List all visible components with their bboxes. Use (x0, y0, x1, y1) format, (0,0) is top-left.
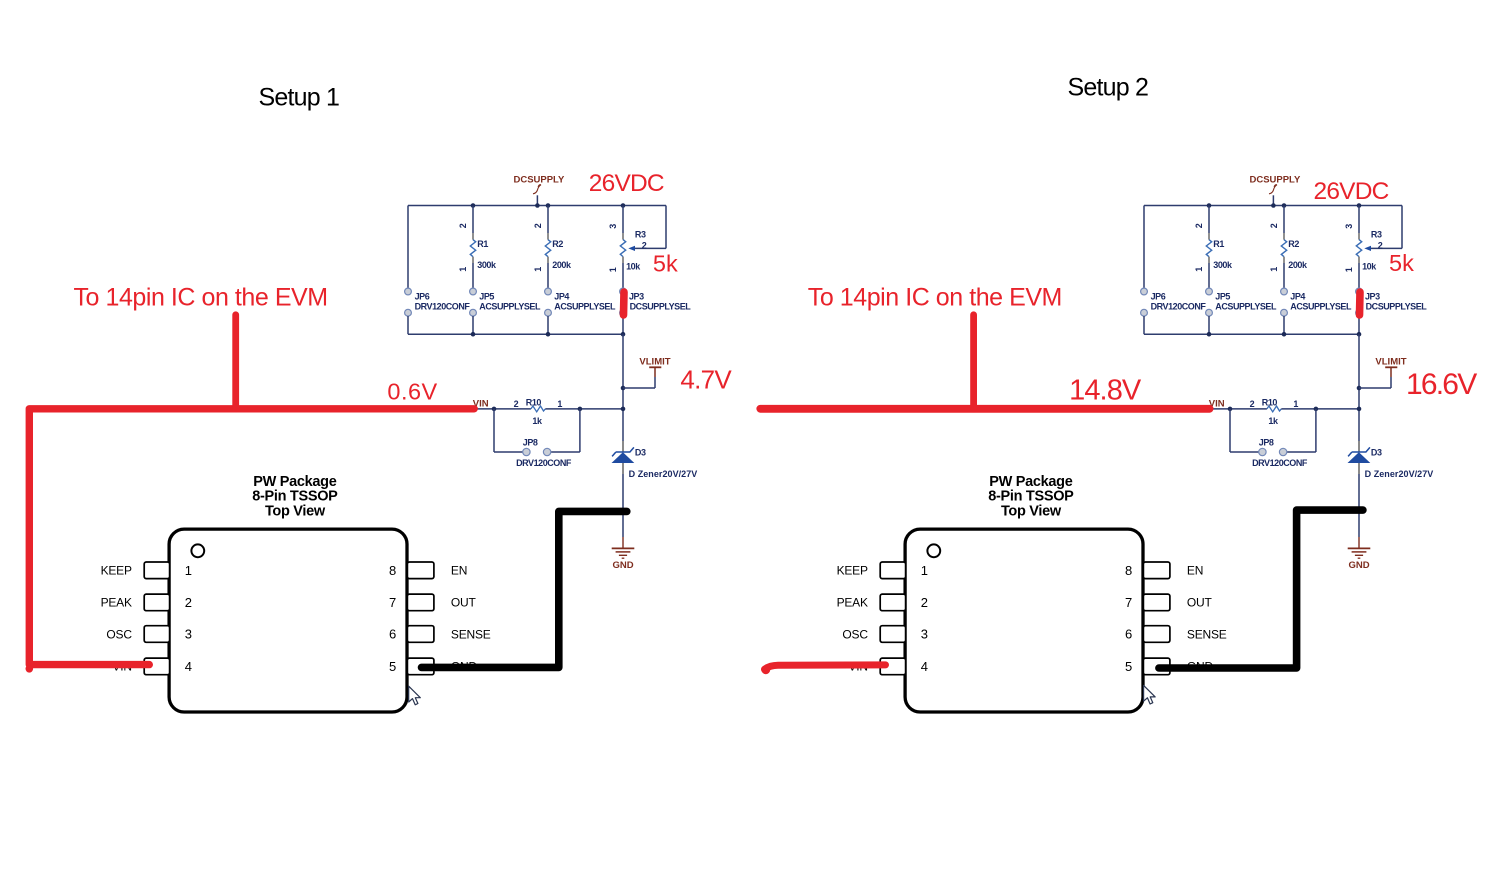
wire: JP3 to bottom rail (1358, 316, 1360, 334)
svg-text:300k: 300k (1213, 260, 1233, 270)
svg-text:R1: R1 (1213, 239, 1224, 249)
svg-text:SENSE: SENSE (1187, 627, 1227, 641)
jumper JP6 pads (setup 1) (405, 288, 412, 316)
wire: R3 wiper feed from rail (setup 1) (635, 206, 667, 249)
svg-text:2: 2 (533, 223, 543, 228)
svg-text:D Zener20V/27V: D Zener20V/27V (629, 469, 698, 479)
op-amp U1 8-pin TSSOP body (setup 1) (169, 529, 407, 712)
svg-text:R1: R1 (477, 239, 488, 249)
pin number 2 of R3 (1378, 240, 1383, 250)
svg-text:3: 3 (921, 627, 928, 642)
pin name KEEP (setup 2) (837, 564, 868, 578)
label JP5 (479, 291, 494, 301)
wire: DC supply top rail (setup 2) (1144, 205, 1402, 207)
title Setup 2 (1068, 73, 1149, 101)
svg-text:200k: 200k (1288, 260, 1308, 270)
svg-text:0.6V: 0.6V (387, 378, 437, 404)
wire: JP8 left leg (setup 1) (494, 409, 523, 452)
svg-text:To 14pin IC on the EVM: To 14pin IC on the EVM (808, 284, 1062, 312)
annotation: 14.8V (setup 2) (1069, 375, 1142, 407)
wire: JP5 to bottom rail (472, 316, 474, 334)
svg-text:26VDC: 26VDC (1314, 178, 1389, 205)
svg-text:R3: R3 (635, 230, 646, 240)
wire: top rail to R2 (1283, 206, 1285, 240)
pin 4 box (setup 2) (880, 658, 905, 675)
net label GND (setup 2) (1348, 560, 1369, 571)
svg-text:8-Pin TSSOP: 8-Pin TSSOP (988, 489, 1074, 505)
svg-text:ACSUPPLYSEL: ACSUPPLYSEL (1215, 302, 1277, 312)
label JP5 (1215, 291, 1230, 301)
wire: JP5 to bottom rail (1208, 316, 1210, 334)
label JP3 (1365, 291, 1380, 301)
svg-text:R10: R10 (1262, 397, 1278, 407)
pin name VIN (setup 1) (112, 660, 131, 674)
svg-text:DRV120CONF: DRV120CONF (1252, 458, 1308, 468)
wire: R3 wiper feed from rail (setup 2) (1371, 206, 1403, 249)
pin name VIN (setup 2) (848, 660, 867, 674)
svg-text:JP5: JP5 (1215, 291, 1230, 301)
svg-text:1k: 1k (532, 416, 543, 426)
annotation: 26VDC (setup 2) (1314, 178, 1389, 205)
svg-text:ACSUPPLYSEL: ACSUPPLYSEL (554, 302, 616, 312)
annotation: To 14pin IC on the EVM (setup 1) (74, 284, 328, 312)
svg-text:R2: R2 (552, 239, 563, 249)
value D Zener20V/27V (1365, 469, 1434, 479)
svg-text:3: 3 (185, 627, 192, 642)
svg-text:DRV120CONF: DRV120CONF (1151, 302, 1207, 312)
jumper JP6 pads (setup 2) (1141, 288, 1148, 316)
value 300k (477, 260, 497, 270)
pin number 1 of R1 (458, 267, 468, 272)
wire: top rail to R1 (472, 206, 474, 240)
svg-text:1: 1 (557, 399, 562, 409)
pin 3 box (setup 2) (880, 626, 905, 643)
wire: top rail to R3 (setup 1) (622, 206, 624, 240)
net label VIN (setup 1) (473, 398, 489, 409)
wire: JP8 right leg (setup 2) (1287, 409, 1316, 452)
wire: R10 to main net (setup 2) (1281, 408, 1359, 410)
jumper JP3 pads (setup 2) (1356, 288, 1363, 316)
label D3 (1371, 448, 1382, 458)
wire: JP4 to bottom rail (547, 316, 549, 334)
svg-text:26VDC: 26VDC (589, 170, 664, 197)
svg-text:1: 1 (458, 267, 468, 272)
wire: DC supply top rail (setup 1) (408, 205, 666, 207)
svg-text:VLIMIT: VLIMIT (639, 356, 670, 367)
svg-text:6: 6 (389, 627, 396, 642)
wire: VIN to R10 (setup 1) (475, 408, 531, 410)
pin number 3 (185, 627, 192, 642)
net label DRV120CONF (JP8) (516, 458, 572, 468)
net label DCSUPPLYSEL (1366, 302, 1428, 312)
junction dots on bottom rail (setup 1) (471, 332, 626, 337)
svg-text:5: 5 (1125, 659, 1132, 674)
net label DRV120CONF (1151, 302, 1207, 312)
jumper JP5 pads (470, 288, 477, 316)
wire: JP8 left leg (setup 2) (1230, 409, 1259, 452)
wire: bottom rail (setup 1) (408, 333, 623, 335)
wire: bottom rail (setup 2) (1144, 333, 1359, 335)
svg-text:8: 8 (1125, 563, 1132, 578)
pin number 5 (389, 659, 396, 674)
net label VIN (setup 2) (1209, 398, 1225, 409)
value 300k (1213, 260, 1233, 270)
pin name SENSE (setup 2) (1187, 627, 1227, 641)
wire: top rail to R2 (547, 206, 549, 240)
svg-text:1: 1 (608, 267, 618, 272)
resistor R2 200k (1281, 240, 1286, 289)
svg-text:R3: R3 (1371, 230, 1382, 240)
svg-text:JP3: JP3 (1365, 291, 1380, 301)
zener diode D3 (setup 2) (1348, 441, 1371, 474)
annotation: 0.6V (setup 1) (387, 378, 437, 404)
svg-text:Top View: Top View (1001, 503, 1062, 519)
red wire: pin 4 segment (setup 2) (761, 665, 885, 674)
wire: VIN to R10 (setup 2) (1211, 408, 1267, 410)
pin number 2 of R2 (1269, 223, 1279, 228)
svg-text:2: 2 (1250, 399, 1255, 409)
svg-text:ACSUPPLYSEL: ACSUPPLYSEL (1290, 302, 1352, 312)
net label GND (setup 1) (612, 560, 633, 571)
net label DRV120CONF (JP8) (1252, 458, 1308, 468)
pin number 1 of R1 (1194, 267, 1204, 272)
svg-text:4: 4 (185, 659, 192, 674)
wire: top rail to R3 (setup 2) (1358, 206, 1360, 240)
pin number 2 of R1 (1194, 223, 1204, 228)
pin name SENSE (setup 1) (451, 627, 491, 641)
wire: JP8 right leg (setup 1) (551, 409, 580, 452)
svg-text:Top View: Top View (265, 503, 326, 519)
pin number 1 (921, 563, 928, 578)
svg-text:R2: R2 (1288, 239, 1299, 249)
svg-text:DCSUPPLYSEL: DCSUPPLYSEL (1366, 302, 1428, 312)
svg-text:4: 4 (921, 659, 928, 674)
wire: left rail down to JP6 (setup 2) (1143, 206, 1145, 289)
pin 5 box (setup 2) (1143, 658, 1170, 675)
pin name OSC (setup 1) (106, 627, 132, 641)
svg-text:JP8: JP8 (1259, 438, 1274, 448)
net label DRV120CONF (415, 302, 471, 312)
svg-text:D3: D3 (1371, 448, 1382, 458)
svg-text:GND: GND (1348, 560, 1369, 571)
potentiometer R3 10k (setup 2) (1356, 240, 1361, 289)
pin 1 box (setup 1) (144, 562, 169, 579)
svg-text:KEEP: KEEP (101, 564, 132, 578)
svg-text:1: 1 (1194, 267, 1204, 272)
pin number 6 (389, 627, 396, 642)
pin 4 box (setup 1) (144, 658, 169, 675)
pin number 2 of R2 (533, 223, 543, 228)
svg-text:DRV120CONF: DRV120CONF (516, 458, 572, 468)
value 200k (1288, 260, 1308, 270)
title Setup 1 (259, 84, 340, 112)
pin 1 indicator circle (setup 2) (927, 544, 940, 557)
svg-text:1: 1 (185, 563, 192, 578)
label JP3 (629, 291, 644, 301)
pin number 5 (1125, 659, 1132, 674)
resistor R1 300k (470, 240, 475, 289)
jumper JP4 pads (545, 288, 552, 316)
pin number 2 of R3 (642, 240, 647, 250)
resistor R10 1k (setup 2) (1267, 406, 1281, 412)
svg-text:GND: GND (612, 560, 633, 571)
wire: JP3 to bottom rail (622, 316, 624, 334)
svg-text:R10: R10 (526, 397, 542, 407)
svg-text:D Zener20V/27V: D Zener20V/27V (1365, 469, 1434, 479)
svg-text:2: 2 (1269, 223, 1279, 228)
annotation: 4.7V (setup 1) (680, 365, 732, 395)
pin number 3 of R3 (1344, 224, 1354, 229)
svg-text:1: 1 (1293, 399, 1298, 409)
pin 7 box (setup 2) (1143, 594, 1170, 611)
pin name GND (setup 2) (1187, 660, 1214, 674)
wire: D3 to ground (setup 2) (1358, 474, 1360, 537)
wire: main vertical net (setup 2) (1358, 334, 1360, 441)
red jumper shunt on JP3 (setup 2) (1356, 292, 1364, 315)
value D Zener20V/27V (629, 469, 698, 479)
svg-text:KEEP: KEEP (837, 564, 868, 578)
pin number 1 of R10 (1293, 399, 1298, 409)
svg-text:OSC: OSC (842, 627, 868, 641)
annotation: 5k (setup 1) (653, 251, 678, 277)
label JP4 (554, 291, 569, 301)
jumper JP4 pads (1281, 288, 1288, 316)
svg-text:300k: 300k (477, 260, 497, 270)
label R3 (635, 230, 646, 240)
pin name OUT (setup 2) (1187, 596, 1213, 610)
net label DCSUPPLYSEL (630, 302, 692, 312)
svg-text:2: 2 (514, 399, 519, 409)
svg-text:5: 5 (389, 659, 396, 674)
svg-text:7: 7 (389, 595, 396, 610)
junction dots on top rail (setup 1) (471, 203, 626, 208)
R3 wiper arrow (setup 1) (628, 246, 635, 251)
label R3 (1371, 230, 1382, 240)
svg-text:ACSUPPLYSEL: ACSUPPLYSEL (479, 302, 541, 312)
label R10 (526, 397, 542, 407)
R3 wiper arrow (setup 2) (1364, 246, 1371, 251)
svg-text:JP4: JP4 (554, 291, 569, 301)
label JP6 (1151, 291, 1166, 301)
pin 3 box (setup 1) (144, 626, 169, 643)
svg-text:Setup 2: Setup 2 (1068, 73, 1149, 101)
pin 6 box (setup 1) (407, 626, 434, 643)
svg-text:D3: D3 (635, 448, 646, 458)
svg-text:DCSUPPLYSEL: DCSUPPLYSEL (630, 302, 692, 312)
svg-text:5k: 5k (1389, 250, 1414, 276)
pin number 1 (185, 563, 192, 578)
svg-text:VLIMIT: VLIMIT (1375, 356, 1406, 367)
resistor R2 200k (545, 240, 550, 289)
value 10k (1362, 261, 1377, 271)
pin number 2 of R10 (1250, 399, 1255, 409)
label R2 (1288, 239, 1299, 249)
ground symbol GND (setup 1) (612, 537, 635, 558)
svg-text:16.6V: 16.6V (1406, 368, 1477, 401)
pin number 1 of R10 (557, 399, 562, 409)
svg-text:DCSUPPLY: DCSUPPLY (513, 175, 565, 186)
svg-text:EN: EN (1187, 564, 1203, 578)
pin 6 box (setup 2) (1143, 626, 1170, 643)
junction dots on top rail (setup 2) (1207, 203, 1362, 208)
svg-text:8-Pin TSSOP: 8-Pin TSSOP (252, 489, 338, 505)
pin 8 box (setup 1) (407, 562, 434, 579)
svg-text:JP4: JP4 (1290, 291, 1305, 301)
jumper JP3 pads (setup 1) (620, 288, 627, 316)
pin number 8 (389, 563, 396, 578)
value 10k (626, 261, 641, 271)
label JP8 (523, 438, 538, 448)
pin name PEAK (setup 2) (837, 596, 868, 610)
wire: top rail to R1 (1208, 206, 1210, 240)
annotation: 5k (setup 2) (1389, 250, 1414, 276)
jumper JP5 pads (1206, 288, 1213, 316)
svg-text:10k: 10k (1362, 261, 1377, 271)
label R10 (1262, 397, 1278, 407)
svg-text:1k: 1k (1268, 416, 1279, 426)
label JP8 (1259, 438, 1274, 448)
value 1k (532, 416, 543, 426)
pin name PEAK (setup 1) (101, 596, 132, 610)
svg-text:6: 6 (1125, 627, 1132, 642)
svg-text:OUT: OUT (1187, 596, 1213, 610)
svg-text:JP6: JP6 (415, 291, 430, 301)
red jumper shunt on JP3 (setup 1) (620, 292, 628, 315)
svg-text:14.8V: 14.8V (1069, 375, 1142, 407)
zener diode D3 (setup 1) (612, 441, 635, 474)
pin name OUT (setup 1) (451, 596, 477, 610)
svg-text:JP5: JP5 (479, 291, 494, 301)
label JP4 (1290, 291, 1305, 301)
mouse cursor (setup 1) (409, 686, 421, 705)
pin number 4 (185, 659, 192, 674)
red wire: stub to annotation (setup 2) (970, 315, 977, 409)
annotation: To 14pin IC on the EVM (setup 2) (808, 284, 1062, 312)
IC package title (setup 1) (252, 474, 338, 519)
svg-text:3: 3 (608, 224, 618, 229)
svg-text:2: 2 (458, 223, 468, 228)
pin number 2 (185, 595, 192, 610)
svg-text:1: 1 (533, 267, 543, 272)
svg-text:2: 2 (1378, 240, 1383, 250)
svg-text:200k: 200k (552, 260, 572, 270)
mouse cursor (setup 2) (1144, 685, 1156, 704)
net label ACSUPPLYSEL (1215, 302, 1277, 312)
pin number 3 (921, 627, 928, 642)
wire: JP4 to bottom rail (1283, 316, 1285, 334)
resistor R10 1k (setup 1) (531, 406, 545, 412)
pin 2 box (setup 1) (144, 594, 169, 611)
svg-text:10k: 10k (626, 261, 641, 271)
svg-text:PW Package: PW Package (253, 474, 336, 490)
svg-text:PW Package: PW Package (989, 474, 1072, 490)
black wire: pin 5 to GND (setup 1) (422, 511, 627, 667)
pin number 8 (1125, 563, 1132, 578)
red wire: VIN feed (setup 2) (760, 405, 1209, 413)
red wire: stub to annotation (setup 1) (232, 315, 239, 409)
wire: D3 to ground (setup 1) (622, 474, 624, 537)
node VLIMIT power port (setup 2) (1357, 356, 1407, 390)
svg-text:1: 1 (921, 563, 928, 578)
pin number 2 of R1 (458, 223, 468, 228)
svg-text:2: 2 (185, 595, 192, 610)
junction dots at R10 (setup 2) (1228, 407, 1362, 412)
pin number 1 of R3 (608, 267, 618, 272)
svg-text:PEAK: PEAK (837, 596, 868, 610)
svg-text:DCSUPPLY: DCSUPPLY (1249, 175, 1301, 186)
svg-text:1: 1 (1269, 267, 1279, 272)
svg-text:JP8: JP8 (523, 438, 538, 448)
svg-text:EN: EN (451, 564, 467, 578)
svg-text:JP6: JP6 (1151, 291, 1166, 301)
svg-text:2: 2 (642, 240, 647, 250)
node DCSUPPLY power port (setup 1) (513, 175, 565, 206)
pin number 1 of R2 (1269, 267, 1279, 272)
svg-text:4.7V: 4.7V (680, 365, 732, 395)
pin 8 box (setup 2) (1143, 562, 1170, 579)
red wire: VIN loop (setup 1) (26, 409, 475, 673)
pin 1 indicator circle (setup 1) (191, 544, 204, 557)
svg-text:DRV120CONF: DRV120CONF (415, 302, 471, 312)
op-amp U2 8-pin TSSOP body (setup 2) (905, 529, 1143, 712)
svg-text:OUT: OUT (451, 596, 477, 610)
pin number 2 (921, 595, 928, 610)
wire: JP6 to bottom rail (407, 316, 409, 334)
net label ACSUPPLYSEL (479, 302, 541, 312)
node VLIMIT power port (setup 1) (621, 356, 671, 390)
label JP6 (415, 291, 430, 301)
label R1 (477, 239, 488, 249)
svg-text:PEAK: PEAK (101, 596, 132, 610)
svg-text:SENSE: SENSE (451, 627, 491, 641)
junction dots on bottom rail (setup 2) (1207, 332, 1362, 337)
net label ACSUPPLYSEL (1290, 302, 1352, 312)
svg-text:2: 2 (921, 595, 928, 610)
pin 5 box (setup 1) (407, 658, 434, 675)
annotation: 16.6V (setup 2) (1406, 368, 1477, 401)
svg-text:JP3: JP3 (629, 291, 644, 301)
junction dots at R10 (setup 1) (492, 407, 626, 412)
pin name EN (setup 2) (1187, 564, 1203, 578)
ground symbol GND (setup 2) (1348, 537, 1371, 558)
wire: JP6 to bottom rail (1143, 316, 1145, 334)
pin 2 box (setup 2) (880, 594, 905, 611)
label R2 (552, 239, 563, 249)
pin number 7 (1125, 595, 1132, 610)
svg-text:8: 8 (389, 563, 396, 578)
label D3 (635, 448, 646, 458)
IC package title (setup 2) (988, 474, 1074, 519)
potentiometer R3 10k (setup 1) (620, 240, 625, 289)
pin name GND (setup 1) (451, 660, 478, 674)
pin number 2 of R10 (514, 399, 519, 409)
svg-text:To 14pin IC on the EVM: To 14pin IC on the EVM (74, 284, 328, 312)
pin 1 box (setup 2) (880, 562, 905, 579)
pin number 1 of R2 (533, 267, 543, 272)
pin number 7 (389, 595, 396, 610)
wire: main vertical net (setup 1) (622, 334, 624, 441)
svg-text:7: 7 (1125, 595, 1132, 610)
pin name KEEP (setup 1) (101, 564, 132, 578)
value 1k (1268, 416, 1279, 426)
wire: R10 to main net (setup 1) (545, 408, 623, 410)
node DCSUPPLY power port (setup 2) (1249, 175, 1301, 206)
jumper JP8 pads (setup 2) (1259, 448, 1287, 455)
net label ACSUPPLYSEL (554, 302, 616, 312)
pin number 1 of R3 (1344, 267, 1354, 272)
label R1 (1213, 239, 1224, 249)
pin number 3 of R3 (608, 224, 618, 229)
